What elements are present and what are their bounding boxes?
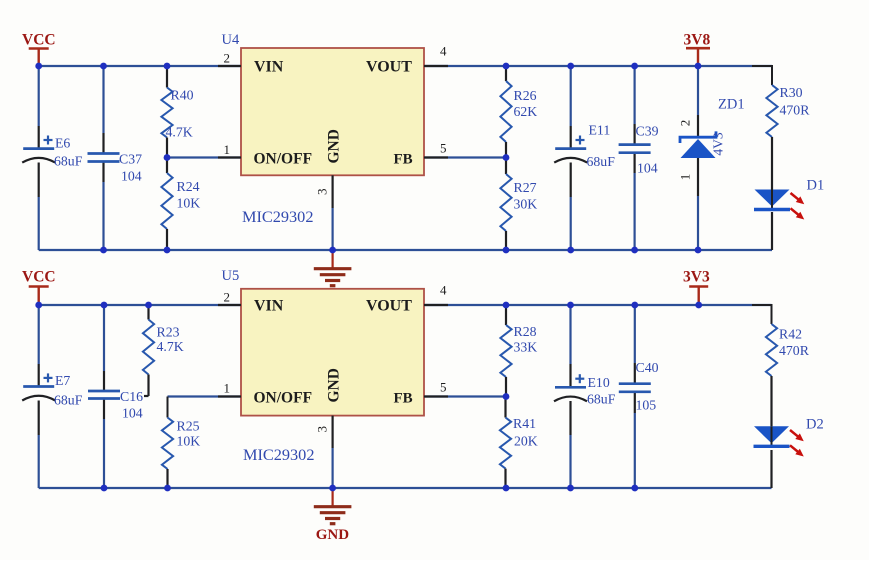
svg-text:VOUT: VOUT xyxy=(366,298,412,315)
capacitor C40 105 xyxy=(619,382,651,385)
svg-text:2: 2 xyxy=(678,120,693,127)
svg-text:FB: FB xyxy=(394,152,413,168)
svg-text:ZD1: ZD1 xyxy=(718,97,745,113)
resistor R40 4.7K xyxy=(166,66,168,88)
zener diode ZD1 4V3 xyxy=(681,139,716,158)
U5 pin 2 stub and number xyxy=(218,304,241,306)
capacitor E11 symbol xyxy=(555,147,586,150)
svg-text:5: 5 xyxy=(440,141,447,156)
svg-text:D1: D1 xyxy=(807,178,825,194)
svg-text:4V3: 4V3 xyxy=(711,132,726,155)
LED D2 xyxy=(754,426,789,443)
resistor R41 20K xyxy=(504,397,506,418)
wire C40 vertical xyxy=(634,305,636,363)
capacitor E6 symbol xyxy=(23,147,54,150)
svg-text:1: 1 xyxy=(224,381,231,396)
svg-text:GND: GND xyxy=(326,129,343,163)
wire top rail right circuit 2 xyxy=(424,304,772,306)
svg-text:10K: 10K xyxy=(177,196,201,211)
svg-text:C39: C39 xyxy=(636,124,659,139)
wire top rail left circuit 2 xyxy=(39,304,241,306)
svg-text:C40: C40 xyxy=(636,360,659,375)
svg-text:10K: 10K xyxy=(177,434,201,449)
svg-text:VIN: VIN xyxy=(254,59,284,76)
svg-text:3V8: 3V8 xyxy=(684,32,711,49)
capacitor E7 symbol xyxy=(23,385,54,388)
svg-text:R41: R41 xyxy=(513,416,536,431)
resistor R23 4.7K xyxy=(147,305,149,320)
svg-text:MIC29302: MIC29302 xyxy=(243,445,314,464)
wire E10 vertical xyxy=(569,305,571,364)
wire ON/OFF row circuit 2 xyxy=(168,395,242,397)
svg-text:3: 3 xyxy=(315,426,330,433)
wire zener column xyxy=(697,66,699,115)
junction dots circuit 2 xyxy=(35,302,42,309)
power net VCC circuit 1 xyxy=(29,47,49,50)
svg-text:GND: GND xyxy=(316,527,350,543)
power net 3V8 xyxy=(686,47,710,50)
svg-text:GND: GND xyxy=(326,368,343,402)
wire left vertical VCC column xyxy=(38,66,40,126)
svg-text:R24: R24 xyxy=(177,179,200,194)
op-amp U5 MIC29302 body xyxy=(241,289,424,416)
U5 pin 5 stub and number xyxy=(424,395,448,397)
svg-text:VCC: VCC xyxy=(22,32,56,49)
U5 pin 4 stub and number xyxy=(424,304,448,306)
svg-text:R23: R23 xyxy=(157,325,180,340)
svg-text:68uF: 68uF xyxy=(54,154,83,169)
op-amp U4 MIC29302 body xyxy=(241,48,424,175)
resistor R24 10K xyxy=(166,158,168,174)
svg-text:FB: FB xyxy=(394,391,413,407)
svg-text:4: 4 xyxy=(440,283,447,298)
svg-text:68uF: 68uF xyxy=(54,393,83,408)
svg-text:104: 104 xyxy=(637,161,658,176)
wire FB row (U4 pin5 to R26/R27 node) xyxy=(424,156,506,158)
resistor R25 10K xyxy=(167,397,169,418)
U4 pin 1 stub and number xyxy=(218,156,241,158)
wire C39 vertical xyxy=(633,66,635,124)
svg-text:R26: R26 xyxy=(514,88,537,103)
wire top rail right (U4 VOUT to R30 branch) xyxy=(424,65,772,67)
wire FB row circuit 2 xyxy=(424,395,506,397)
svg-text:E10: E10 xyxy=(588,375,610,390)
wire bottom rail circuit 1 xyxy=(39,249,772,251)
svg-text:D2: D2 xyxy=(806,417,824,433)
U5 pin 1 stub and number xyxy=(218,395,241,397)
svg-text:R30: R30 xyxy=(780,85,803,100)
wire top rail left (VCC to U4 VIN) xyxy=(39,65,241,67)
svg-text:30K: 30K xyxy=(514,197,538,212)
svg-text:ON/OFF: ON/OFF xyxy=(254,151,313,168)
svg-text:C37: C37 xyxy=(119,152,142,167)
svg-text:E11: E11 xyxy=(589,123,611,138)
svg-text:U5: U5 xyxy=(222,268,240,284)
capacitor C16 104 xyxy=(88,390,120,393)
capacitor C37 104 xyxy=(88,152,120,155)
resistor R42 470R xyxy=(766,324,777,376)
svg-text:33K: 33K xyxy=(514,340,538,355)
U4 pin 5 stub and number xyxy=(424,156,448,158)
svg-text:U4: U4 xyxy=(222,32,240,48)
svg-text:MIC29302: MIC29302 xyxy=(242,207,313,226)
ground symbol circuit 2 xyxy=(332,488,334,506)
wire ON/OFF row (R40/R24 node to U4 pin1) xyxy=(167,156,241,158)
wire C37 vertical xyxy=(102,66,104,133)
svg-text:C16: C16 xyxy=(120,389,143,404)
svg-text:104: 104 xyxy=(122,406,143,421)
svg-text:62K: 62K xyxy=(514,104,538,119)
svg-text:3V3: 3V3 xyxy=(683,269,710,286)
svg-text:VCC: VCC xyxy=(22,269,56,286)
resistor R26 62K xyxy=(505,66,507,81)
svg-text:E7: E7 xyxy=(55,373,70,388)
svg-text:R27: R27 xyxy=(514,180,537,195)
resistor R27 30K xyxy=(505,158,507,175)
power net VCC circuit 2 xyxy=(29,285,49,288)
svg-text:4: 4 xyxy=(440,44,447,59)
wire E11 vertical xyxy=(570,66,572,126)
svg-text:4.7K: 4.7K xyxy=(166,125,193,140)
svg-text:105: 105 xyxy=(636,398,657,413)
svg-text:20K: 20K xyxy=(514,434,538,449)
U4 pin 2 stub and number xyxy=(218,65,241,67)
wire left vertical VCC column circuit 2 xyxy=(38,305,40,364)
svg-text:1: 1 xyxy=(224,142,231,157)
junction dots circuit 1 xyxy=(35,63,42,70)
wire bottom rail circuit 2 xyxy=(39,487,772,489)
svg-text:4.7K: 4.7K xyxy=(157,339,184,354)
svg-text:2: 2 xyxy=(224,51,231,66)
capacitor E10 symbol xyxy=(555,386,586,389)
svg-text:5: 5 xyxy=(440,380,447,395)
svg-text:R25: R25 xyxy=(177,419,200,434)
U4 pin 4 stub and number xyxy=(424,65,448,67)
svg-text:E6: E6 xyxy=(55,136,70,151)
capacitor C39 104 xyxy=(619,143,651,146)
power net 3V3 xyxy=(689,285,708,288)
svg-text:68uF: 68uF xyxy=(587,154,616,169)
wire R30/D1 branch corner xyxy=(752,66,772,85)
wire R42/D2 branch corner xyxy=(752,305,772,324)
svg-text:VIN: VIN xyxy=(254,298,284,315)
svg-text:68uF: 68uF xyxy=(587,392,616,407)
ground symbol circuit 1 xyxy=(332,250,334,268)
LED D1 xyxy=(755,190,790,207)
resistor R30 470R xyxy=(766,85,777,137)
svg-text:470R: 470R xyxy=(780,103,811,118)
svg-text:VOUT: VOUT xyxy=(366,59,412,76)
resistor R28 33K xyxy=(505,305,507,325)
wire C16 vertical xyxy=(103,305,105,371)
svg-text:R28: R28 xyxy=(514,324,537,339)
svg-text:ON/OFF: ON/OFF xyxy=(254,390,313,407)
svg-text:104: 104 xyxy=(121,169,142,184)
U4 pin 3 GND stub and number xyxy=(332,175,334,208)
svg-text:R42: R42 xyxy=(779,327,802,342)
svg-text:1: 1 xyxy=(678,174,693,181)
U5 pin 3 GND stub and number xyxy=(332,416,334,448)
svg-text:3: 3 xyxy=(315,189,330,196)
svg-text:R40: R40 xyxy=(171,88,194,103)
svg-text:470R: 470R xyxy=(779,343,810,358)
svg-text:2: 2 xyxy=(224,290,231,305)
